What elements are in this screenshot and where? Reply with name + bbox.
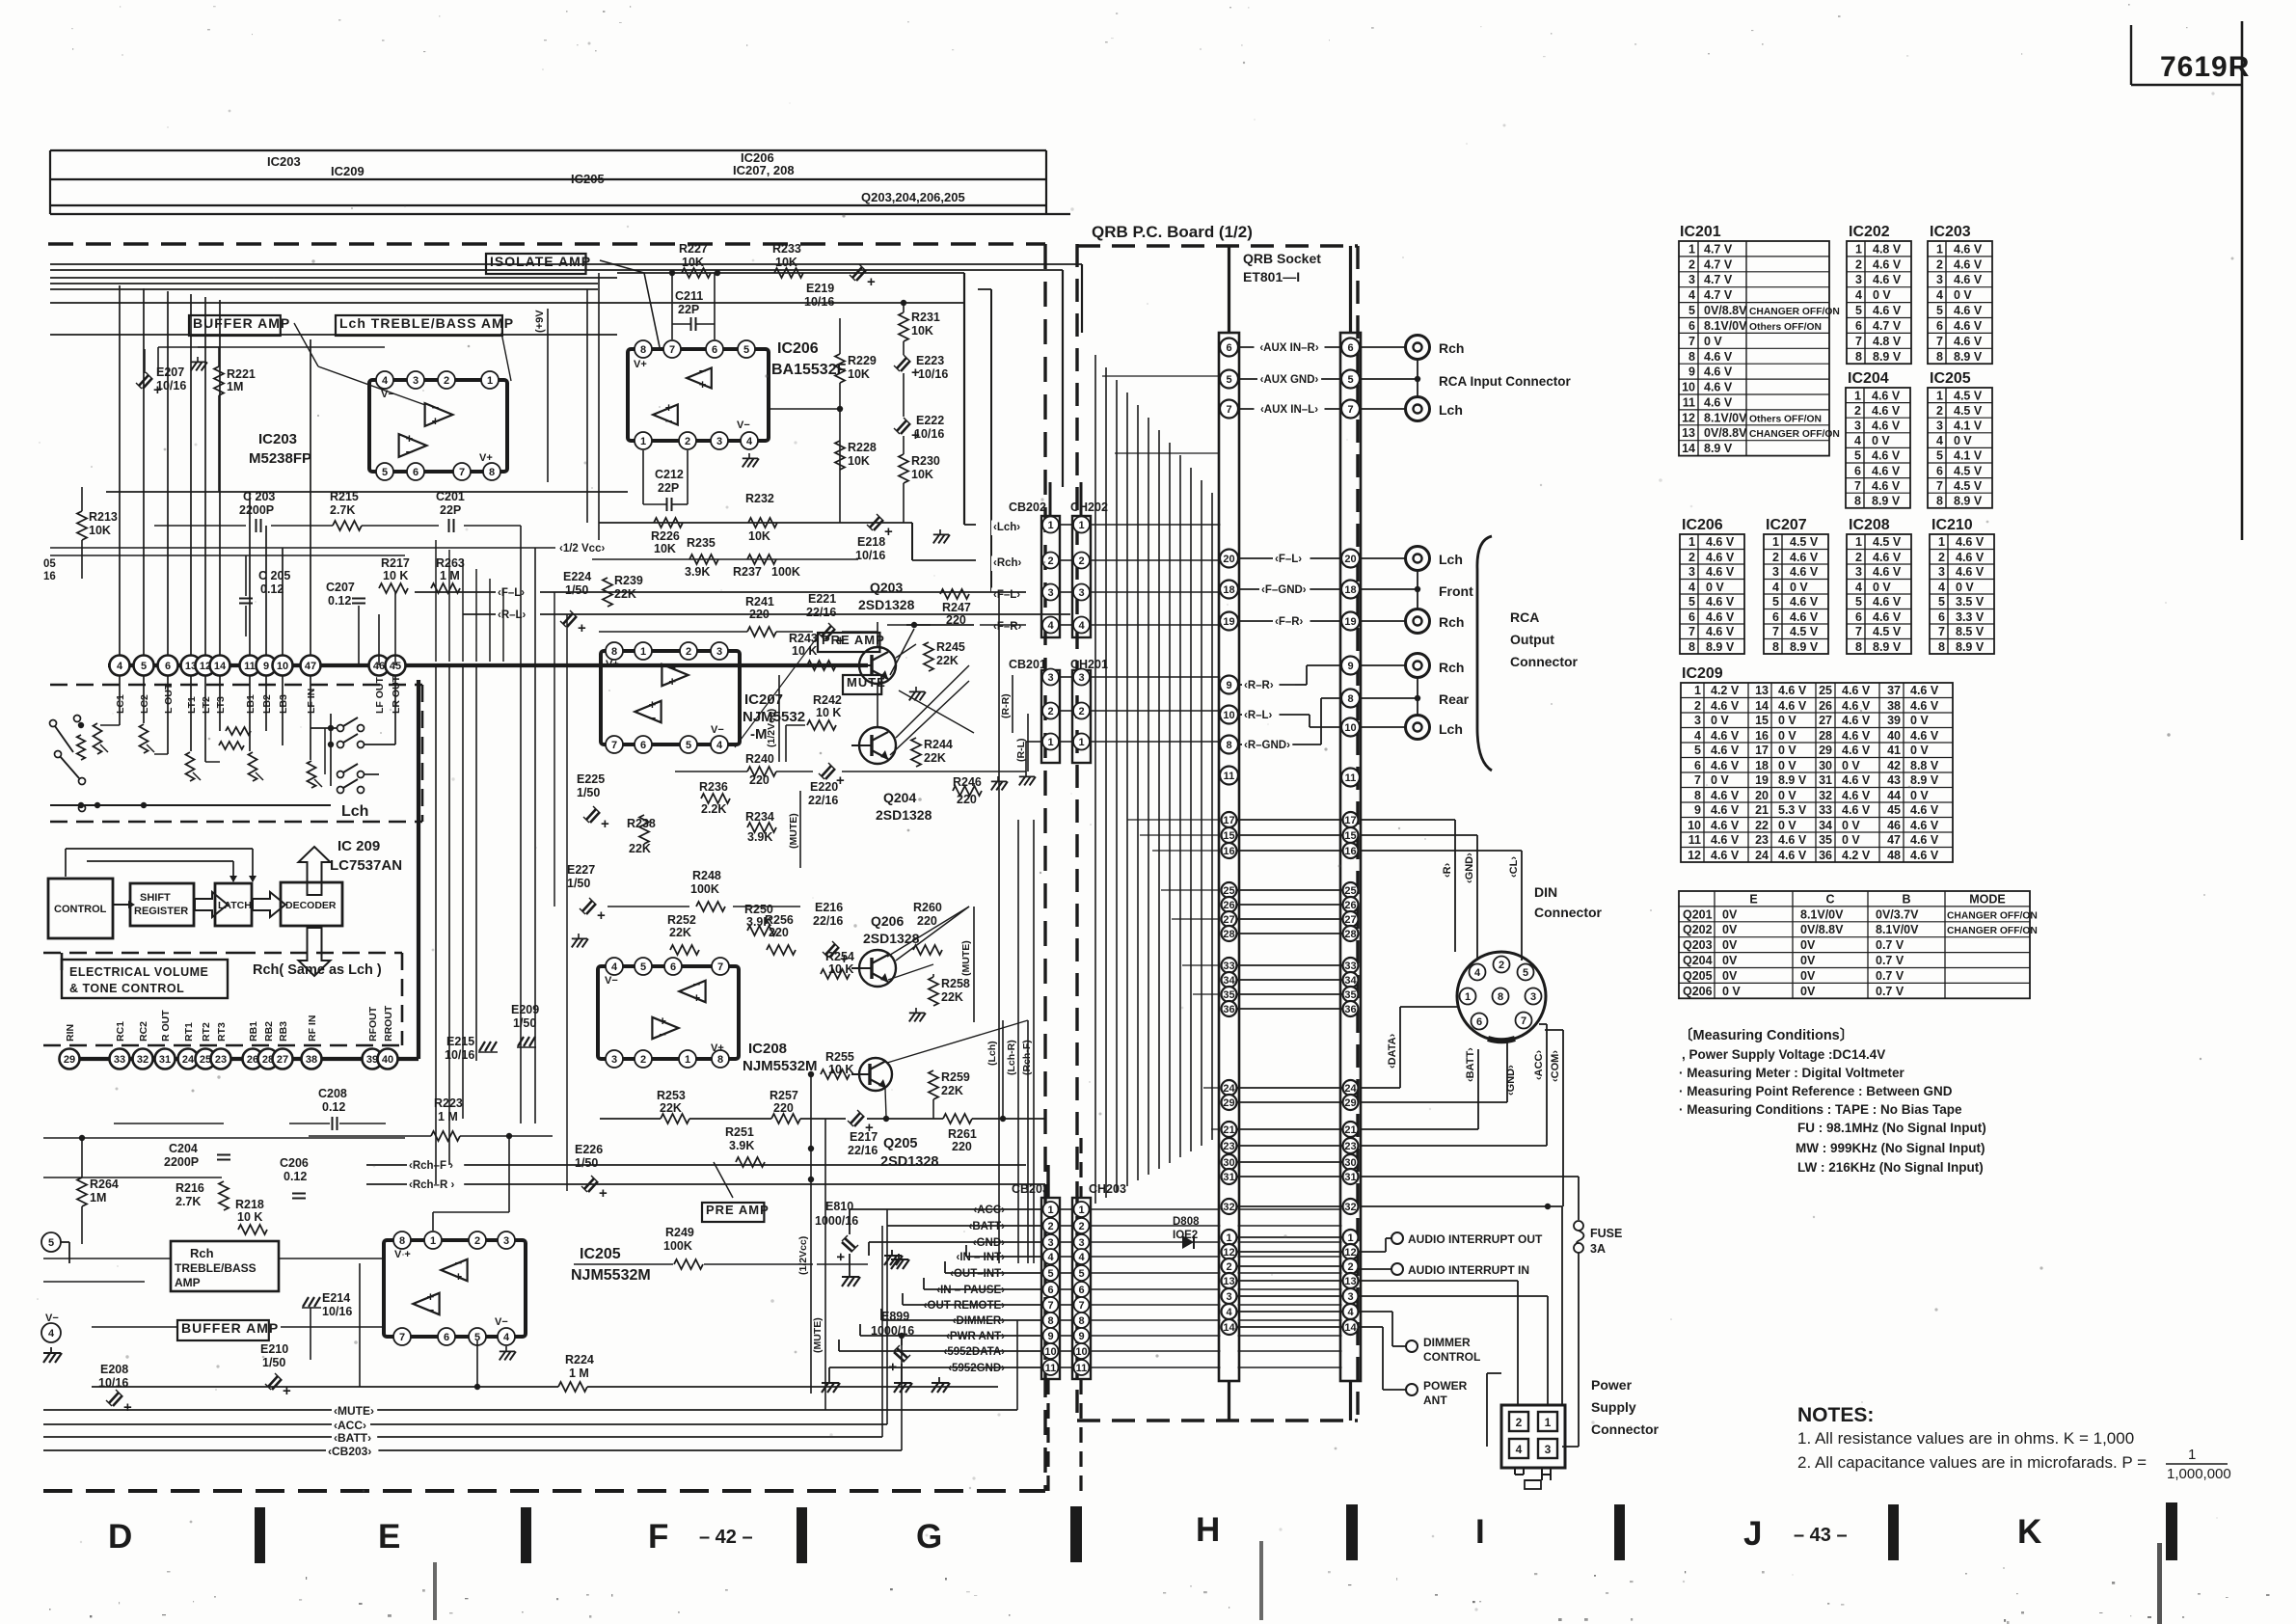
transistor Q204: [859, 727, 896, 764]
svg-text:E210: E210: [260, 1342, 288, 1356]
socket pin 26 (left strip): [1222, 897, 1237, 912]
svg-text:8.9 V: 8.9 V: [1778, 773, 1807, 787]
svg-text:24: 24: [1755, 849, 1769, 862]
pin 25: [196, 1049, 216, 1069]
socket pin 32 (left strip): [1222, 1199, 1237, 1214]
wire jog left of power connector: [1486, 1373, 1488, 1447]
svg-text:Q201: Q201: [1683, 907, 1713, 921]
svg-text:R217: R217: [381, 556, 410, 570]
svg-text:4.6 V: 4.6 V: [1706, 625, 1735, 638]
svg-text:4.6 V: 4.6 V: [1872, 404, 1901, 418]
wire socket15 to DIN (GND): [1361, 834, 1478, 836]
svg-text:7: 7: [399, 1332, 405, 1343]
CB203 pin 6: [1043, 1282, 1059, 1297]
svg-text:(MUTE): (MUTE): [960, 940, 972, 976]
svg-text:7: 7: [459, 467, 465, 478]
net label ‹DIMMER›: [950, 1314, 1007, 1330]
svg-text:45: 45: [1887, 803, 1901, 817]
wire ic206 bottom rail: [599, 522, 912, 524]
svg-text:6: 6: [1226, 342, 1231, 354]
svg-text:R218: R218: [235, 1198, 264, 1211]
svg-text:8: 8: [1078, 1315, 1084, 1327]
svg-text:4: 4: [1772, 581, 1779, 594]
Lch TREBLE/BASS AMP label: [336, 315, 502, 336]
ecap E221 22/16: [819, 623, 845, 649]
svg-text:V−: V−: [737, 420, 750, 431]
wire between socket strips: [1238, 1280, 1342, 1282]
svg-text:31: 31: [1223, 1172, 1234, 1183]
svg-text:‹Rch›: ‹Rch›: [993, 557, 1022, 569]
net label ‹5952GND›: [943, 1362, 1007, 1377]
net label (AUX IN-L): [1239, 408, 1341, 410]
svg-text:Rch( Same as Lch ): Rch( Same as Lch ): [253, 962, 382, 978]
svg-text:2SD1328: 2SD1328: [876, 807, 932, 823]
svg-text:13: 13: [1344, 1276, 1356, 1287]
svg-text:4.6 V: 4.6 V: [1842, 729, 1871, 743]
svg-text:4.6 V: 4.6 V: [1910, 849, 1939, 862]
svg-text:5: 5: [1694, 744, 1701, 757]
svg-text:Lch: Lch: [1439, 402, 1463, 418]
svg-text:8.9 V: 8.9 V: [1954, 495, 1983, 508]
svg-text:4.6 V: 4.6 V: [1711, 789, 1740, 802]
svg-text:7: 7: [611, 740, 617, 751]
scan dirt bottom edge: [556, 1598, 558, 1600]
svg-text:Rch: Rch: [1439, 614, 1464, 630]
svg-text:RCA: RCA: [1510, 609, 1539, 625]
svg-text:3: 3: [1688, 565, 1695, 579]
zone divider bar: [797, 1507, 807, 1563]
svg-text:5: 5: [743, 344, 749, 356]
svg-text:8.5 V: 8.5 V: [1956, 625, 1985, 638]
svg-text:24: 24: [182, 1054, 195, 1066]
svg-text:R242: R242: [813, 693, 842, 707]
svg-text:12: 12: [1344, 1247, 1356, 1259]
svg-text:E227: E227: [567, 863, 595, 877]
svg-text:2: 2: [1772, 551, 1779, 564]
svg-text:IC207: IC207: [744, 691, 783, 708]
svg-text:4: 4: [1226, 1307, 1232, 1318]
socket pin 18 (right strip): [1341, 581, 1360, 599]
svg-text:21: 21: [1755, 803, 1769, 817]
svg-text:3: 3: [611, 1054, 617, 1066]
svg-text:Others OFF/ON: Others OFF/ON: [1749, 322, 1822, 333]
svg-text:4.6 V: 4.6 V: [1842, 744, 1871, 757]
svg-text:10: 10: [1682, 381, 1695, 394]
svg-text:2SD1328: 2SD1328: [858, 597, 915, 612]
svg-text:5: 5: [1688, 304, 1695, 317]
svg-text:19: 19: [1223, 616, 1234, 628]
RCA output jack Lch rear: [1406, 716, 1430, 740]
svg-text:8: 8: [1855, 640, 1862, 654]
svg-text:4.6 V: 4.6 V: [1704, 365, 1733, 379]
socket pin 19 (right strip): [1341, 612, 1360, 631]
wire between socket strips: [1238, 1101, 1342, 1103]
svg-text:8: 8: [1936, 350, 1943, 364]
svg-text:0 V: 0 V: [1778, 729, 1796, 743]
svg-text:8.1V/0V: 8.1V/0V: [1704, 411, 1747, 424]
svg-text:22K: 22K: [936, 654, 959, 667]
svg-text:46: 46: [1887, 819, 1901, 832]
svg-text:9: 9: [1347, 661, 1353, 672]
svg-text:4.7 V: 4.7 V: [1704, 288, 1733, 302]
wire CH203 to socket: [1090, 1319, 1221, 1321]
svg-text:IC203: IC203: [258, 431, 297, 447]
svg-text:+: +: [665, 400, 673, 415]
wire socket32 to power connector: [1361, 1205, 1563, 1207]
CH203 pin 8: [1074, 1313, 1090, 1328]
svg-text:3: 3: [1047, 587, 1053, 599]
svg-text:−: −: [427, 1303, 435, 1317]
wire socket13 to power pin2: [1359, 1280, 1519, 1282]
svg-text:0 V: 0 V: [1910, 789, 1929, 802]
svg-text:2: 2: [1047, 706, 1053, 717]
svg-text:5: 5: [1078, 1268, 1084, 1280]
svg-text:ANT: ANT: [1423, 1394, 1447, 1407]
CH201 pin 2: [1073, 703, 1090, 719]
svg-text:E223: E223: [916, 354, 944, 367]
svg-text:‹IN – PAUSE›: ‹IN – PAUSE›: [936, 1285, 1005, 1296]
svg-text:7: 7: [1855, 335, 1862, 348]
svg-text:43: 43: [1887, 773, 1901, 787]
wire F-R upper: [887, 624, 931, 626]
vertical rails 540-570: [520, 526, 522, 1123]
CB203 pin 8: [1043, 1313, 1059, 1328]
svg-text:25: 25: [1819, 684, 1832, 697]
svg-text:23: 23: [215, 1054, 227, 1066]
pin 24: [178, 1049, 199, 1069]
socket pin 30 (right strip): [1343, 1154, 1359, 1170]
svg-text:6: 6: [1047, 1285, 1053, 1296]
svg-text:14: 14: [1344, 1322, 1357, 1334]
socket pin 13 (right strip): [1343, 1273, 1359, 1288]
svg-text:17: 17: [1344, 815, 1356, 826]
svg-text:8.9 V: 8.9 V: [1706, 640, 1735, 654]
svg-text:LF OUT: LF OUT: [374, 677, 386, 714]
wire jog R-GND: [1320, 698, 1322, 744]
svg-text:7: 7: [1078, 1300, 1084, 1312]
svg-text:8.9 V: 8.9 V: [1704, 442, 1733, 455]
svg-text:7: 7: [1226, 404, 1231, 416]
svg-text:0V/3.7V: 0V/3.7V: [1876, 907, 1919, 921]
svg-text:R224: R224: [565, 1353, 594, 1367]
svg-text:16: 16: [1344, 846, 1356, 857]
svg-text:R258: R258: [941, 977, 970, 990]
svg-text:8: 8: [1688, 640, 1695, 654]
wire (COM): [1562, 1030, 1564, 1206]
svg-text:4.6 V: 4.6 V: [1910, 833, 1939, 847]
svg-text:0 V: 0 V: [1954, 288, 1972, 302]
svg-text:38: 38: [306, 1054, 317, 1066]
wire (F-L) row: [415, 591, 497, 593]
DIN pin 7: [1516, 1013, 1532, 1029]
svg-text:15: 15: [1755, 714, 1769, 727]
RCA input jack Rch: [1406, 336, 1430, 360]
wire CB201-CH201: [1059, 676, 1073, 678]
svg-text:Q203,204,206,205: Q203,204,206,205: [861, 190, 965, 204]
resistor R255 10K: [821, 1069, 850, 1079]
wires entering CB203 from left: [887, 1225, 1041, 1227]
svg-text:10/16: 10/16: [918, 367, 948, 381]
svg-text:22/16: 22/16: [806, 606, 836, 619]
svg-text:C204: C204: [169, 1142, 198, 1155]
svg-text:RT1: RT1: [183, 1022, 195, 1042]
svg-text:R228: R228: [848, 441, 877, 454]
svg-text:2: 2: [1078, 706, 1084, 717]
svg-text:0.12: 0.12: [328, 594, 351, 608]
ground: [991, 776, 1008, 790]
socket pin 7 (right strip): [1341, 400, 1360, 419]
svg-text:11: 11: [1345, 772, 1357, 784]
svg-text:4.6 V: 4.6 V: [1873, 610, 1902, 624]
svg-text:1: 1: [1855, 535, 1862, 549]
CB203 pin 9: [1043, 1328, 1059, 1343]
wire CB203-CH203: [1059, 1225, 1073, 1227]
svg-text:0V: 0V: [1800, 938, 1816, 952]
pin 39: [363, 1049, 383, 1069]
zone divider bar: [1614, 1504, 1625, 1560]
svg-text:4.5 V: 4.5 V: [1954, 479, 1983, 493]
socket pin 4 (left strip): [1222, 1304, 1237, 1319]
svg-text:6: 6: [1688, 610, 1695, 624]
wire rows lower left: [43, 1137, 405, 1139]
svg-text:20: 20: [1344, 554, 1356, 565]
resistor R263 1M: [431, 583, 460, 593]
svg-text:10: 10: [1044, 1346, 1056, 1358]
svg-text:+: +: [601, 816, 609, 832]
svg-text:0 V: 0 V: [1873, 581, 1891, 594]
svg-text:8: 8: [717, 1054, 723, 1066]
wire R248 row: [608, 906, 689, 907]
pin 4: [110, 656, 130, 676]
potentiometer LF: [308, 761, 316, 788]
svg-text:+: +: [427, 1289, 435, 1304]
svg-text:Front: Front: [1439, 583, 1473, 599]
socket pin 5 (left strip): [1220, 370, 1238, 389]
svg-text:R234: R234: [745, 810, 774, 824]
svg-text:Rch: Rch: [1439, 340, 1464, 356]
svg-text:MODE: MODE: [1969, 893, 2006, 907]
svg-text:220: 220: [917, 914, 937, 928]
svg-text:RIN: RIN: [65, 1024, 76, 1042]
svg-text:7: 7: [1347, 404, 1353, 416]
svg-text:1/50: 1/50: [565, 583, 588, 597]
audio interrupt out circle: [1391, 1232, 1403, 1244]
svg-text:3: 3: [503, 1235, 509, 1247]
pin column stubs below row 1: [119, 675, 121, 725]
svg-text:5: 5: [1854, 449, 1861, 463]
net label 1/2 Vcc: [557, 542, 621, 557]
svg-text:4: 4: [503, 1332, 510, 1343]
svg-text:0 V: 0 V: [1873, 288, 1891, 302]
wire 5952gnd: [829, 1367, 1041, 1368]
svg-text:16: 16: [43, 571, 56, 582]
svg-text:10K: 10K: [911, 468, 933, 481]
svg-text:48: 48: [1887, 849, 1901, 862]
svg-text:Q203: Q203: [1683, 938, 1713, 952]
wire lch bottom: [50, 804, 331, 806]
CB203 pin 10: [1043, 1343, 1059, 1359]
svg-text:33: 33: [114, 1054, 125, 1066]
svg-text:4.6 V: 4.6 V: [1711, 803, 1740, 817]
svg-text:Q206: Q206: [1683, 985, 1713, 998]
svg-text:+: +: [599, 1185, 608, 1202]
wire CH203 to socket: [1090, 1225, 1221, 1227]
wire CB203-CH203: [1059, 1256, 1073, 1258]
svg-text:25: 25: [1223, 885, 1234, 897]
wire +9V rail: [547, 309, 549, 482]
svg-text:E225: E225: [577, 772, 605, 786]
svg-text:220: 220: [749, 773, 770, 787]
wire between socket strips: [1238, 979, 1342, 981]
svg-text:IC205: IC205: [571, 172, 605, 186]
svg-text:4.6 V: 4.6 V: [1704, 350, 1733, 364]
ecap E216 22/16: [823, 941, 849, 967]
svg-text:42: 42: [1887, 759, 1901, 772]
wire CH201 to socket A: [1090, 676, 1221, 678]
svg-text:R253: R253: [657, 1089, 686, 1102]
zone divider bar: [521, 1507, 531, 1563]
svg-text:RF IN: RF IN: [307, 1015, 318, 1042]
svg-text:2: 2: [1078, 555, 1084, 567]
svg-text:‹Lch›: ‹Lch›: [993, 522, 1020, 533]
svg-text:7: 7: [1521, 1015, 1526, 1027]
svg-text:13: 13: [1755, 684, 1769, 697]
pin 29: [60, 1049, 80, 1069]
svg-text:220: 220: [769, 926, 789, 939]
socket pin 36 (left strip): [1222, 1001, 1237, 1016]
svg-text:(1/2Vcc): (1/2Vcc): [797, 1236, 809, 1275]
svg-text:4.6 V: 4.6 V: [1790, 551, 1819, 564]
svg-text:Q205: Q205: [1683, 969, 1713, 983]
svg-text:‹GND›: ‹GND›: [1464, 853, 1475, 883]
svg-text:5: 5: [1347, 374, 1353, 386]
svg-text:D808: D808: [1173, 1216, 1200, 1228]
svg-text:8: 8: [1854, 495, 1861, 508]
wire between socket strips: [1238, 918, 1342, 920]
svg-text:1: 1: [640, 646, 646, 658]
wire CH202 to socket A: [1090, 524, 1221, 526]
CH202 pin 1: [1073, 517, 1090, 533]
svg-text:‹BATT›: ‹BATT›: [1465, 1047, 1476, 1082]
svg-text:CH202: CH202: [1070, 501, 1108, 514]
wire isolate-amp callout: [600, 260, 644, 273]
svg-text:6: 6: [1347, 342, 1353, 354]
svg-text:29: 29: [1819, 744, 1832, 757]
svg-text:7619R: 7619R: [2160, 51, 2250, 83]
svg-text:3: 3: [1047, 672, 1053, 684]
zone divider bar: [1346, 1504, 1358, 1560]
svg-text:4: 4: [1047, 1252, 1054, 1263]
svg-text:R255: R255: [825, 1050, 854, 1064]
svg-text:5: 5: [1936, 304, 1943, 317]
svg-text:+: +: [884, 524, 893, 540]
net label ‹5952DATA›: [936, 1345, 1007, 1361]
resistor R258 22K: [929, 977, 938, 1006]
svg-text:−: −: [432, 400, 440, 415]
svg-text:4.6 V: 4.6 V: [1956, 535, 1985, 549]
svg-text:E220: E220: [810, 780, 838, 794]
svg-text:4: 4: [1854, 434, 1861, 447]
svg-text:8.9 V: 8.9 V: [1956, 640, 1985, 654]
svg-text:IC204: IC204: [1848, 370, 1889, 387]
svg-text:1 M: 1 M: [438, 1110, 458, 1123]
svg-text:6: 6: [712, 344, 717, 356]
net label F-L CB202: [991, 588, 1029, 604]
svg-text:‹IN – INT›: ‹IN – INT›: [957, 1252, 1006, 1263]
svg-text:10: 10: [1344, 722, 1356, 734]
pin 31: [155, 1049, 176, 1069]
svg-text:4.5 V: 4.5 V: [1873, 535, 1902, 549]
IC206 package: [628, 349, 769, 441]
wire row y=545: [154, 525, 246, 527]
svg-text:100K: 100K: [663, 1239, 692, 1253]
svg-text:BUFFER AMP: BUFFER AMP: [193, 315, 290, 331]
svg-text:– 43 –: – 43 –: [1794, 1525, 1848, 1546]
svg-text:C: C: [1825, 893, 1834, 907]
svg-text:IC209: IC209: [1682, 665, 1723, 682]
pin 14: [210, 656, 230, 676]
vertical bus left: [119, 285, 121, 656]
svg-text:(Rch-F): (Rch-F): [1021, 1040, 1033, 1075]
riser mute: [1016, 1409, 1018, 1411]
socket pin 17 (right strip): [1343, 812, 1359, 827]
socket pin 34 (left strip): [1222, 972, 1237, 988]
svg-text:– 42 –: – 42 –: [699, 1527, 753, 1548]
IC207 package: [601, 651, 740, 744]
svg-text:· Measuring Meter : Digital Vo: · Measuring Meter : Digital Voltmeter: [1679, 1066, 1905, 1080]
svg-text:4.5 V: 4.5 V: [1954, 389, 1983, 402]
RCA output jack Rch rear: [1406, 654, 1430, 678]
svg-text:(MUTE): (MUTE): [788, 813, 799, 849]
wire between socket strips: [1238, 1251, 1342, 1253]
svg-text:Connector: Connector: [1591, 1421, 1660, 1437]
svg-text:R264: R264: [90, 1177, 119, 1191]
socket pin 23 (left strip): [1222, 1138, 1237, 1153]
ground: [191, 357, 207, 370]
net label (AUX GND): [1239, 378, 1341, 380]
svg-text:3: 3: [1078, 1237, 1084, 1249]
svg-text:1: 1: [1465, 991, 1471, 1003]
wire between socket strips: [1238, 1008, 1342, 1010]
wire CB202-CH202: [1059, 524, 1073, 526]
wire control top: [65, 849, 67, 877]
net label ‹ACC›: [970, 1204, 1008, 1219]
svg-text:2: 2: [444, 375, 449, 387]
svg-text:Lch: Lch: [1439, 721, 1463, 737]
svg-text:3: 3: [1078, 672, 1084, 684]
callout wires: [294, 323, 318, 366]
svg-text:‹GND›: ‹GND›: [973, 1237, 1005, 1249]
svg-text:R221: R221: [227, 367, 256, 381]
svg-text:17: 17: [1755, 744, 1769, 757]
wire CH203 to socket: [1090, 1288, 1221, 1290]
svg-text:0V: 0V: [1722, 923, 1738, 936]
CB202 pin 3: [1042, 584, 1059, 601]
svg-text:+: +: [283, 1383, 291, 1399]
IC205 package: [384, 1240, 526, 1337]
svg-text:10/16: 10/16: [914, 427, 944, 441]
svg-text:3: 3: [1936, 420, 1943, 433]
fuse lower wire: [1578, 1253, 1580, 1447]
socket pin 21 (left strip): [1222, 1122, 1237, 1137]
pin 12: [196, 656, 216, 676]
bottom bus wires: [43, 1409, 1017, 1411]
svg-text:4.7 V: 4.7 V: [1704, 257, 1733, 271]
svg-text:E226: E226: [575, 1143, 603, 1156]
svg-text:4.5 V: 4.5 V: [1790, 625, 1819, 638]
svg-text:‹COM›: ‹COM›: [1550, 1050, 1561, 1082]
svg-text:2: 2: [1047, 555, 1053, 567]
